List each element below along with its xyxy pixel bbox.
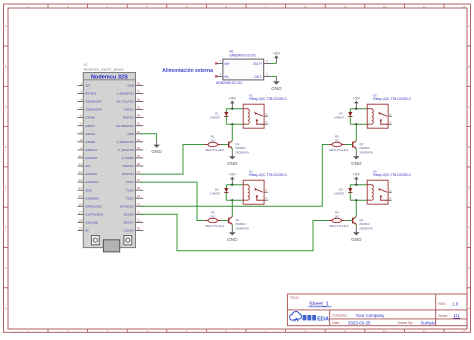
svg-text:Date:: Date: xyxy=(332,321,340,325)
svg-text:RES-TH-LE.0: RES-TH-LE.0 xyxy=(205,224,224,228)
svg-text:IN-: IN- xyxy=(225,75,230,79)
transistor Q2 2N3904 xyxy=(228,218,230,224)
svg-text:E: E xyxy=(468,185,470,189)
svg-text:RX2/G16: RX2/G16 xyxy=(122,172,134,176)
relay K2 coil xyxy=(243,185,249,201)
svg-text:Alimentación externa: Alimentación externa xyxy=(162,68,213,74)
svg-text:10: 10 xyxy=(383,329,387,333)
svg-text:1/1: 1/1 xyxy=(454,313,461,318)
svg-text:F: F xyxy=(5,226,7,230)
svg-text:37: 37 xyxy=(137,90,141,94)
wire base Q1 xyxy=(221,144,228,146)
svg-text:19: 19 xyxy=(79,227,83,231)
svg-text:15: 15 xyxy=(79,194,83,198)
svg-text:IN+: IN+ xyxy=(225,62,230,66)
diode D1 1N4007 xyxy=(224,112,228,116)
node junction +5V tap K2 xyxy=(231,184,233,186)
relay K1 pin NO xyxy=(264,115,268,117)
wire GND pin32 to ground xyxy=(141,134,157,140)
wire emitter Q1 xyxy=(231,148,233,151)
svg-text:TITLE:: TITLE: xyxy=(290,296,300,300)
svg-text:2N3904TA: 2N3904TA xyxy=(235,227,249,231)
ground at B1 OUT- xyxy=(275,76,277,81)
svg-text:+5V: +5V xyxy=(353,96,361,101)
svg-text:+5V: +5V xyxy=(229,172,237,177)
svg-text:1.0: 1.0 xyxy=(452,301,459,306)
B1 unconnected pin marker IN+ xyxy=(215,62,217,64)
svg-text:30: 30 xyxy=(137,146,141,150)
svg-text:SS/T3/G15: SS/T3/G15 xyxy=(119,204,134,208)
resistor R1 1k2 xyxy=(205,144,208,146)
wire OUT+ to +5V xyxy=(271,62,277,64)
svg-text:11: 11 xyxy=(79,162,82,166)
svg-text:TX2/G17: TX2/G17 xyxy=(122,164,134,168)
svg-text:GND: GND xyxy=(85,188,91,192)
svg-text:Relay-JQC-TT8-DC05V-C: Relay-JQC-TT8-DC05V-C xyxy=(373,97,412,101)
svg-text:2N3904TA: 2N3904TA xyxy=(359,227,373,231)
svg-text:1k2: 1k2 xyxy=(210,138,215,142)
svg-text:31: 31 xyxy=(137,138,141,142)
svg-text:1N4007: 1N4007 xyxy=(210,116,221,120)
svg-text:V_SCK/G18: V_SCK/G18 xyxy=(118,148,134,152)
ground at Q1 emitter xyxy=(231,151,233,156)
diode D4 1N4007 xyxy=(348,112,352,116)
wire diode lower stub D1 xyxy=(225,116,227,124)
svg-text:2N3904TA: 2N3904TA xyxy=(235,151,249,155)
svg-text:+5V: +5V xyxy=(273,50,281,55)
svg-text:34: 34 xyxy=(137,114,141,118)
svg-text:B: B xyxy=(5,65,7,69)
svg-text:25: 25 xyxy=(137,186,141,190)
svg-text:11: 11 xyxy=(423,4,426,8)
svg-text:SD0/G7: SD0/G7 xyxy=(124,221,135,225)
ground at Q2 emitter xyxy=(231,227,233,232)
svg-text:G12/HISO: G12/HISO xyxy=(85,180,99,184)
svg-text:G25/DA1: G25/DA1 xyxy=(85,148,97,152)
svg-text:F: F xyxy=(468,226,470,230)
B1 pin 3 OUT+ xyxy=(264,62,271,64)
svg-text:16: 16 xyxy=(79,202,83,206)
relay K3 pin NO xyxy=(388,115,392,117)
svg-text:G39/A3/SVN: G39/A3/SVN xyxy=(85,108,102,112)
svg-text:EDA: EDA xyxy=(317,316,329,322)
relay K2 switch xyxy=(254,188,257,191)
wire OUT- to GND xyxy=(271,75,277,77)
title block xyxy=(287,294,467,326)
svg-text:2N3904: 2N3904 xyxy=(235,146,246,150)
wire diode lower stub D2 xyxy=(225,192,227,200)
ground at Q3 emitter xyxy=(355,151,357,156)
svg-text:T0/G4: T0/G4 xyxy=(126,180,134,184)
svg-text:Nodemcu_esp32_speed: Nodemcu_esp32_speed xyxy=(84,68,124,72)
relay K1 pin COM xyxy=(264,123,268,125)
svg-text:1N4007: 1N4007 xyxy=(334,192,345,196)
module U1 pins xyxy=(78,84,84,86)
svg-text:32: 32 xyxy=(137,130,141,134)
power flag +5V K2 xyxy=(231,179,233,184)
relay K4 pin COM xyxy=(388,199,392,201)
svg-text:1k2: 1k2 xyxy=(334,138,339,142)
wire +5V loop top K1 xyxy=(226,108,243,110)
svg-text:G34/A6: G34/A6 xyxy=(85,116,95,120)
svg-text:Your Company: Your Company xyxy=(356,313,386,318)
svg-text:12: 12 xyxy=(462,4,466,8)
power flag +5V K4 xyxy=(355,179,357,184)
svg-text:OUT+: OUT+ xyxy=(253,62,262,66)
wire pin26 T0/G4 to R2 xyxy=(141,182,205,220)
wire base Q4 xyxy=(345,220,352,222)
svg-text:28: 28 xyxy=(137,162,141,166)
wire diode upper stub D2 xyxy=(225,185,227,188)
wire pin23 SS/T3/G15 to R3 xyxy=(141,145,329,207)
transistor Q4 2N3904 xyxy=(352,218,354,224)
svg-text:T2/G2: T2/G2 xyxy=(126,196,134,200)
svg-text:E: E xyxy=(5,185,7,189)
svg-text:2N3904: 2N3904 xyxy=(359,222,370,226)
svg-text:17: 17 xyxy=(79,210,83,214)
relay K3 pin COM xyxy=(388,123,392,125)
svg-text:Relay-JQC-TT8-DC05V-C: Relay-JQC-TT8-DC05V-C xyxy=(249,97,288,101)
relay K3 box xyxy=(367,104,388,128)
svg-text:RXD/G3: RXD/G3 xyxy=(123,116,134,120)
svg-text:REV:: REV: xyxy=(438,302,446,306)
svg-text:G10/TX1/SD3: G10/TX1/SD3 xyxy=(85,213,103,217)
node junction +5V tap K4 xyxy=(355,184,357,186)
svg-text:H: H xyxy=(468,306,470,310)
svg-text:Relay-JQC-TT8-DC05V-C: Relay-JQC-TT8-DC05V-C xyxy=(249,173,288,177)
power flag +5V K3 xyxy=(355,103,357,108)
svg-text:1N4007: 1N4007 xyxy=(210,192,221,196)
relay K2 pin COM xyxy=(264,199,268,201)
svg-text:Drawn By:: Drawn By: xyxy=(398,321,414,325)
relay K4 pin NO xyxy=(388,191,392,193)
svg-text:35: 35 xyxy=(137,106,141,110)
svg-text:G33/A5: G33/A5 xyxy=(85,140,95,144)
ground near module xyxy=(156,140,158,145)
wire +5V loop top K3 xyxy=(350,108,367,110)
wire diode upper stub D3 xyxy=(349,185,351,188)
svg-text:11: 11 xyxy=(423,329,426,333)
module U1 Nodemcu 32S body xyxy=(83,73,135,248)
power flag +5V at B1 OUT+ xyxy=(275,58,277,63)
svg-text:B: B xyxy=(468,65,470,69)
svg-text:G36/A0/SVP: G36/A0/SVP xyxy=(85,100,101,104)
svg-text:27: 27 xyxy=(137,170,141,174)
svg-text:G13/MOSI: G13/MOSI xyxy=(85,196,99,200)
relay K1 coil xyxy=(243,109,249,125)
svg-text:1k2: 1k2 xyxy=(334,214,339,218)
svg-text:GND: GND xyxy=(227,237,238,242)
wire loop bottom K4 xyxy=(350,199,367,201)
svg-text:G27: G27 xyxy=(85,164,91,168)
module U1 mounting hole right xyxy=(124,236,132,245)
svg-text:GND: GND xyxy=(351,237,362,242)
svg-text:RES-TH-LE.0: RES-TH-LE.0 xyxy=(329,148,348,152)
svg-text:20: 20 xyxy=(137,227,141,231)
svg-text:H: H xyxy=(5,306,7,310)
wire emitter Q4 xyxy=(355,224,357,227)
svg-text:URB2405-DC-DC: URB2405-DC-DC xyxy=(216,81,243,85)
power module B1 URB2405-DC-DC box xyxy=(223,59,264,80)
wire loop bottom K1 xyxy=(226,123,243,125)
ground at Q4 emitter xyxy=(355,227,357,232)
wire base Q2 xyxy=(221,220,228,222)
svg-text:2N3904TA: 2N3904TA xyxy=(359,151,373,155)
svg-text:GND: GND xyxy=(127,84,133,88)
svg-text:26: 26 xyxy=(137,178,141,182)
svg-text:GND: GND xyxy=(271,86,282,91)
svg-text:GND: GND xyxy=(127,132,133,136)
relay K2 pin NO xyxy=(264,191,268,193)
svg-text:+5V: +5V xyxy=(353,172,361,177)
svg-text:23: 23 xyxy=(137,202,141,206)
svg-text:+5V: +5V xyxy=(229,96,237,101)
svg-text:22: 22 xyxy=(137,210,141,214)
svg-text:Company:: Company: xyxy=(332,314,348,318)
svg-text:V_MISO/G19: V_MISO/G19 xyxy=(117,140,135,144)
wire diode lower stub D4 xyxy=(349,116,351,124)
svg-text:29: 29 xyxy=(137,154,141,158)
svg-text:V_MOSI/G23: V_MOSI/G23 xyxy=(117,92,135,96)
wire collector Q1 xyxy=(231,124,233,141)
power flag +5V K1 xyxy=(231,103,233,108)
svg-text:A: A xyxy=(468,24,470,28)
B1 unconnected pin marker IN- xyxy=(215,75,217,77)
wire base Q3 xyxy=(345,144,352,146)
svg-text:G35/A7: G35/A7 xyxy=(85,124,95,128)
transistor Q1 2N3904 xyxy=(228,142,230,148)
wire +5V loop top K4 xyxy=(350,184,367,186)
resistor R3 1k2 xyxy=(329,144,332,146)
svg-text:13: 13 xyxy=(79,178,83,182)
svg-text:12: 12 xyxy=(79,170,83,174)
wire pin22 SD1/G8 to R4 xyxy=(141,214,329,250)
svg-text:OUT-: OUT- xyxy=(254,75,262,79)
svg-text:2N3904: 2N3904 xyxy=(235,222,246,226)
B1 pin 4 OUT- xyxy=(264,75,271,77)
svg-text:URB2405-DC-DC: URB2405-DC-DC xyxy=(230,54,257,58)
wire collector Q4 xyxy=(355,200,357,217)
wire collector Q2 xyxy=(231,200,233,217)
svg-text:RES-TH-LE.0: RES-TH-LE.0 xyxy=(329,224,348,228)
svg-text:V_SS/G5: V_SS/G5 xyxy=(122,156,134,160)
module U1 mounting hole left xyxy=(91,236,99,245)
svg-text:I2C SDA/G21: I2C SDA/G21 xyxy=(116,124,134,128)
svg-text:RES-TH-LE.0: RES-TH-LE.0 xyxy=(205,148,224,152)
svg-text:I2C SCL/G22: I2C SCL/G22 xyxy=(117,100,135,104)
svg-text:18: 18 xyxy=(79,218,83,222)
svg-text:1N4007: 1N4007 xyxy=(334,116,345,120)
wire diode upper stub D4 xyxy=(349,109,351,112)
relay K1 switch xyxy=(254,112,257,115)
relay K4 switch xyxy=(378,188,381,191)
wire +5V loop top K2 xyxy=(226,184,243,186)
svg-text:33: 33 xyxy=(137,122,141,126)
svg-text:3V3: 3V3 xyxy=(85,84,91,88)
node junction +5V tap K1 xyxy=(231,108,233,110)
svg-text:10: 10 xyxy=(79,154,83,158)
svg-text:10: 10 xyxy=(383,4,387,8)
svg-text:GND: GND xyxy=(151,149,162,154)
EasyEDA logo xyxy=(290,312,302,321)
wire diode upper stub D1 xyxy=(225,109,227,112)
wire emitter Q2 xyxy=(231,224,233,227)
svg-text:21: 21 xyxy=(137,218,141,222)
svg-text:Sheet:: Sheet: xyxy=(438,314,448,318)
svg-text:Relay-JQC-TT8-DC05V-C: Relay-JQC-TT8-DC05V-C xyxy=(373,173,412,177)
node junction collector tap K2 xyxy=(231,199,233,201)
svg-text:24: 24 xyxy=(137,194,141,198)
svg-text:G11/CMD: G11/CMD xyxy=(85,221,98,225)
svg-text:A: A xyxy=(5,24,7,28)
relay K4 box xyxy=(367,180,388,204)
svg-text:Surbyte: Surbyte xyxy=(421,321,437,326)
svg-text:2023-03-25: 2023-03-25 xyxy=(348,321,371,326)
diode D2 1N4007 xyxy=(224,188,228,192)
wire loop bottom K2 xyxy=(226,199,243,201)
node junction +5V tap K3 xyxy=(355,108,357,110)
relay K3 switch xyxy=(378,112,381,115)
wire emitter Q3 xyxy=(355,148,357,151)
svg-text:2N3904: 2N3904 xyxy=(359,146,370,150)
wire pin27 RX2/G16 to R1 xyxy=(141,145,205,175)
relay K2 box xyxy=(243,180,264,204)
relay K1 box xyxy=(243,104,264,128)
diode D3 1N4007 xyxy=(348,188,352,192)
relay K3 coil xyxy=(367,109,373,125)
resistor R4 1k2 xyxy=(329,220,332,222)
wire diode lower stub D3 xyxy=(349,192,351,200)
wire collector Q3 xyxy=(355,124,357,141)
svg-text:Nodemcu 32S: Nodemcu 32S xyxy=(91,74,128,80)
transistor Q3 2N3904 xyxy=(352,142,354,148)
svg-text:SD1/G8: SD1/G8 xyxy=(124,213,135,217)
svg-text:5V: 5V xyxy=(85,229,89,233)
node junction collector tap K4 xyxy=(355,199,357,201)
B1 pin 2 IN- xyxy=(216,75,223,77)
svg-text:U1: U1 xyxy=(84,63,88,67)
svg-text:1k2: 1k2 xyxy=(210,214,215,218)
node junction collector tap K1 xyxy=(231,123,233,125)
svg-text:38: 38 xyxy=(137,81,141,85)
node junction collector tap K3 xyxy=(355,123,357,125)
wire loop bottom K3 xyxy=(350,123,367,125)
svg-text:T1/G0: T1/G0 xyxy=(126,188,134,192)
svg-text:G26/DA2: G26/DA2 xyxy=(85,156,97,160)
resistor R2 1k2 xyxy=(205,220,208,222)
svg-text:CLK/G6: CLK/G6 xyxy=(124,229,135,233)
B1 pin 1 IN+ xyxy=(216,62,223,64)
svg-text:36: 36 xyxy=(137,98,141,102)
svg-text:G32/A4: G32/A4 xyxy=(85,132,95,136)
svg-text:14: 14 xyxy=(79,186,83,190)
svg-text:GND: GND xyxy=(227,161,238,166)
svg-text:G9/RX1/SD2: G9/RX1/SD2 xyxy=(85,204,102,208)
svg-text:GND: GND xyxy=(351,161,362,166)
svg-text:12: 12 xyxy=(462,329,466,333)
relay K4 coil xyxy=(367,185,373,201)
svg-text:G14/CLK: G14/CLK xyxy=(85,172,97,176)
module U1 USB connector xyxy=(103,240,119,252)
svg-text:RST/EN: RST/EN xyxy=(85,92,96,96)
svg-text:TXD/G1: TXD/G1 xyxy=(123,108,134,112)
